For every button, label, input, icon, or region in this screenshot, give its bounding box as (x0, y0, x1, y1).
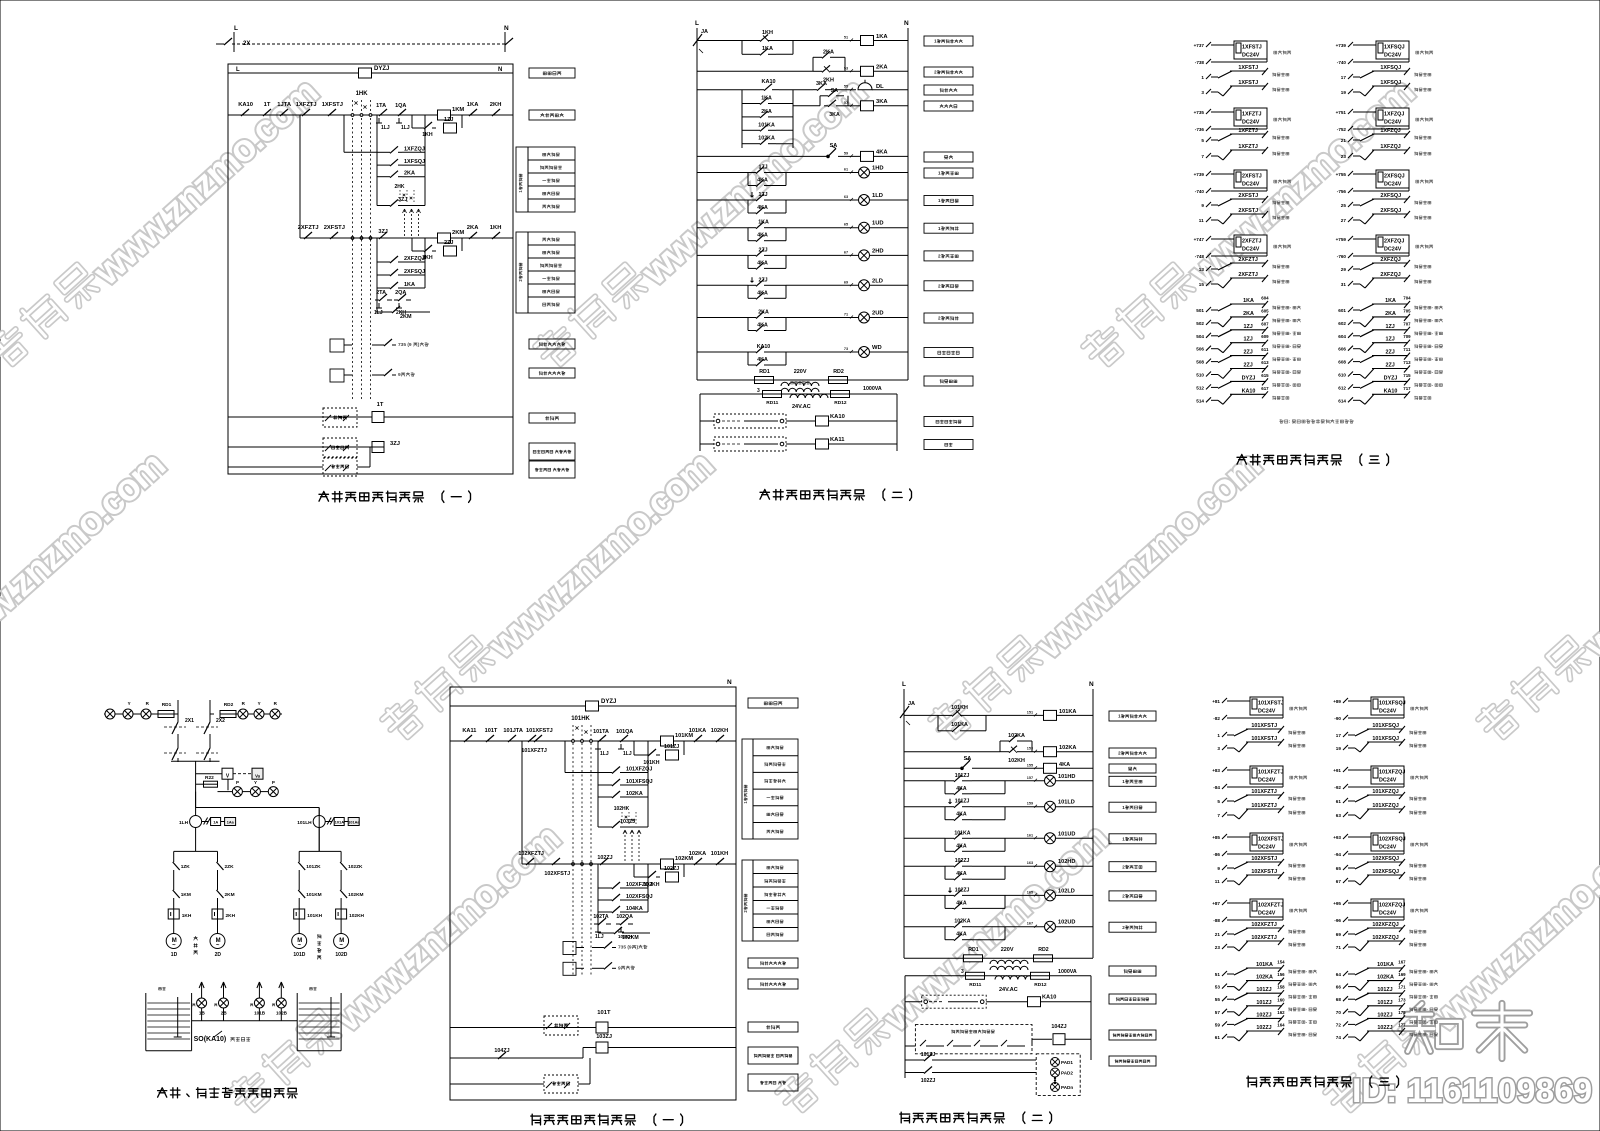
label box 102UD (1109, 922, 1156, 932)
sheet7 L contact 102XFZTJ a (1215, 922, 1305, 937)
relay coil 4KA (838, 149, 908, 161)
svg-text:1B: 1B (199, 1011, 206, 1016)
svg-text:101A: 101A (335, 820, 345, 825)
svg-text:R: R (242, 701, 246, 706)
wire rung 103ZJ s5 (450, 1048, 736, 1059)
svg-text:3: 3 (961, 969, 964, 975)
svg-text:2ZJ: 2ZJ (759, 277, 768, 283)
label box 104ZJ (1109, 1030, 1156, 1040)
svg-text:610: 610 (1338, 373, 1346, 378)
lamp 101LD (1005, 800, 1093, 813)
svg-text:1KH: 1KH (762, 30, 773, 36)
svg-text:67: 67 (844, 250, 848, 254)
sheet7 L contact 102ZJ grp (1215, 1023, 1317, 1042)
svg-text:101D: 101D (293, 952, 305, 958)
lamp phase r 243 (238, 709, 248, 719)
contact 102KA s5 (598, 741, 648, 798)
title sheet1 (319, 491, 471, 502)
wire lamp row 2UD (697, 317, 748, 319)
sheet7 L contact 102XFSTJ b (1215, 869, 1305, 885)
label box remote s5 (748, 1022, 798, 1032)
svg-text:4KA: 4KA (956, 786, 967, 792)
svg-text:1T: 1T (377, 402, 384, 408)
contact 102KM aux (598, 927, 650, 941)
selector switch 101HK (571, 716, 592, 976)
contact 2KA branch (742, 109, 793, 118)
contact 101KH b s5 (711, 851, 730, 865)
svg-text:24V.AC: 24V.AC (792, 404, 811, 410)
sheet3 L contact DYZJ grp (1196, 373, 1300, 391)
label box 2F (924, 152, 973, 162)
wire rung1 left (228, 114, 376, 116)
svg-text:715: 715 (1403, 373, 1411, 378)
svg-text:101KH: 101KH (951, 705, 968, 711)
wire rung A s6 (904, 715, 986, 730)
contact 103ZJ s5 (598, 797, 648, 828)
float switch s6 (905, 995, 986, 1008)
svg-text:709: 709 (1403, 334, 1411, 339)
label box 2C (924, 67, 973, 77)
svg-text:DC24V: DC24V (1242, 247, 1260, 253)
contact 4KA par 102HD (945, 866, 1005, 880)
svg-text:102XFSTJ: 102XFSTJ (544, 871, 570, 877)
wire rung2 s5 (522, 863, 736, 865)
contact 102KH b s5 (643, 871, 660, 888)
sheet3 R contact KA10 grp (1338, 386, 1431, 405)
sheet3 R relay 2XFZQJ DC24V (1336, 235, 1433, 259)
sheet7 L contact 101XFSTJ b (1217, 736, 1305, 752)
svg-text:-752: -752 (1337, 127, 1347, 132)
svg-text:2XFSTJ: 2XFSTJ (1238, 193, 1258, 199)
wire rung DYZJ (228, 67, 513, 73)
contact 101JTA s5 (503, 728, 525, 742)
contact 2XFSQJ b (377, 238, 425, 276)
svg-text:102ZJ: 102ZJ (597, 855, 612, 861)
svg-text:-: - (1290, 331, 1292, 336)
svg-text:3KA: 3KA (876, 99, 888, 105)
title sheet5 (531, 1114, 683, 1125)
wire branch 102ZJ (634, 864, 684, 877)
relay coil 101ZJ (664, 744, 679, 760)
transformer T primary (781, 381, 819, 392)
svg-text:102XFSQJ: 102XFSQJ (626, 894, 653, 900)
svg-text:608: 608 (1338, 360, 1346, 365)
svg-text:DYZJ: DYZJ (1384, 375, 1398, 381)
svg-text:617: 617 (1261, 386, 1269, 391)
svg-text:DC24V: DC24V (1379, 709, 1397, 715)
svg-text:+735: +735 (1194, 110, 1205, 115)
wire rung remote s5 (450, 1027, 736, 1029)
label box PAD (1109, 1056, 1156, 1066)
svg-text:1: 1 (938, 171, 941, 176)
sheet7 R contact 102ZJ grp (1336, 1010, 1438, 1028)
contactor 102KM (340, 876, 363, 904)
svg-text:165: 165 (1027, 890, 1033, 894)
sheet3 R contact 1XFSQJ a (1341, 65, 1431, 80)
fuse RD2 s6 (1034, 947, 1094, 962)
svg-text:3KA: 3KA (829, 112, 840, 118)
svg-text:167: 167 (1027, 922, 1033, 926)
test rung 375 (330, 369, 415, 382)
wire rung A (697, 40, 742, 42)
contact 4KA parallel 1LD (748, 200, 786, 214)
motor 101D (292, 919, 307, 958)
svg-text:167: 167 (1398, 960, 1406, 965)
svg-text:1XFZTJ: 1XFZTJ (1242, 112, 1261, 118)
ammeter 101A (334, 818, 344, 826)
svg-text:101B: 101B (254, 1011, 266, 1016)
svg-text:2KA: 2KA (1385, 311, 1396, 317)
svg-text:-: - (1290, 370, 1292, 375)
watermark znzmo 3 (1081, 67, 1422, 381)
svg-text:102KA: 102KA (1008, 733, 1025, 739)
svg-text:4KA: 4KA (757, 205, 768, 211)
svg-text:71: 71 (844, 313, 848, 317)
lamp P sheet4 (268, 780, 278, 797)
svg-text:www.znzmo.com: www.znzmo.com (1423, 818, 1600, 1041)
svg-text:L: L (234, 25, 238, 32)
svg-text:): ) (637, 945, 639, 951)
svg-text:101KH: 101KH (307, 913, 322, 919)
contact 102KA s5 (689, 851, 708, 865)
svg-text:2ZJ: 2ZJ (1386, 363, 1395, 369)
relay coil 103ZJ (596, 1034, 612, 1053)
selector 2HK mini (395, 184, 415, 202)
svg-text:-: - (1427, 969, 1429, 974)
sheet7 R contact 101ZJ grp (1336, 997, 1438, 1016)
svg-text:+751: +751 (1336, 110, 1347, 115)
svg-text:102KH: 102KH (711, 728, 728, 734)
svg-text:1ZJ: 1ZJ (444, 117, 453, 123)
breaker link dashes (164, 727, 218, 753)
wire spreader left (174, 850, 218, 852)
sheet7 L contact 101XFZTJ b (1217, 803, 1305, 819)
label spray pump vertical (194, 937, 198, 955)
svg-text:102XFZQJ: 102XFZQJ (1379, 903, 1405, 909)
svg-text:2: 2 (743, 910, 748, 913)
contact 4KA parallel 2UD (748, 318, 786, 332)
svg-text:101XFSTJ: 101XFSTJ (1251, 723, 1277, 729)
wire rung C (697, 70, 813, 72)
wire drop x377 b (376, 238, 378, 312)
svg-text:57: 57 (844, 101, 848, 105)
interlock arrows s5 (623, 830, 641, 861)
svg-text:17: 17 (1336, 733, 1342, 738)
svg-text:101ZK: 101ZK (306, 864, 321, 870)
svg-text:1: 1 (1217, 733, 1220, 738)
svg-text:-90: -90 (1334, 716, 1341, 721)
contact 4KA par 101UD (945, 838, 1005, 852)
svg-text:51: 51 (1215, 972, 1221, 977)
label box KA11 (924, 440, 973, 450)
sheet3 R contact 1XFZQJ a (1341, 128, 1431, 143)
svg-text:1: 1 (1122, 837, 1125, 842)
sheet7 R relay 101XFZQJ DC24V (1333, 766, 1428, 790)
label box 2E (924, 101, 973, 111)
label box 1LD (924, 196, 973, 206)
wire rung2 (300, 237, 513, 239)
sheet3 R contact 2XFSQJ a (1341, 193, 1431, 208)
svg-text:59: 59 (1215, 1022, 1221, 1027)
contact 101XFZTJ s5 (521, 735, 546, 754)
svg-text:RD11: RD11 (766, 400, 778, 406)
motor 102D (334, 919, 349, 958)
svg-text:162: 162 (1277, 1010, 1285, 1015)
svg-text:163: 163 (1027, 861, 1033, 865)
sheet3 R relay 1XFZQJ DC24V (1336, 108, 1433, 132)
contact KA10 (748, 344, 786, 353)
label box 101HD (1109, 776, 1156, 786)
svg-text:Y: Y (128, 701, 131, 706)
ammeter 1Aa (221, 818, 236, 826)
svg-text:506: 506 (1196, 347, 1204, 352)
svg-text:2KM: 2KM (452, 230, 464, 236)
wire lamp row 2HD (697, 254, 748, 256)
svg-text:1HD: 1HD (872, 166, 884, 172)
svg-text:-756: -756 (1337, 189, 1347, 194)
svg-text:2KA: 2KA (761, 109, 772, 115)
svg-text:101XFSTJ: 101XFSTJ (526, 728, 553, 734)
svg-text:502: 502 (1196, 321, 1204, 326)
svg-text:101ZJ: 101ZJ (955, 773, 970, 779)
label box 2UD (924, 313, 973, 323)
svg-text:102QA: 102QA (616, 914, 633, 920)
wire right rail sheet2 (907, 28, 909, 380)
svg-text:4KA: 4KA (956, 843, 967, 849)
svg-text:101JTA: 101JTA (503, 728, 523, 734)
svg-text:~: ~ (172, 943, 176, 949)
svg-text:9: 9 (1201, 203, 1204, 208)
svg-text:DC24V: DC24V (1384, 182, 1402, 188)
wire rung1 right s5 (598, 740, 736, 742)
wire spreader right (299, 815, 341, 851)
contact 4KA parallel 1UD (748, 228, 786, 242)
svg-text:DYZJ: DYZJ (374, 66, 389, 72)
svg-text:155: 155 (1027, 763, 1033, 767)
voltmeter V (196, 768, 233, 790)
svg-text:604: 604 (1338, 334, 1346, 339)
contact 4KA par 101LD (945, 807, 1005, 821)
isolator 2ZK (217, 851, 235, 876)
svg-text:102HK: 102HK (614, 806, 630, 812)
svg-text:64: 64 (1336, 972, 1342, 977)
relay coil 3KA (848, 99, 908, 111)
sheet3 R contact 2XFZQJ b (1341, 272, 1431, 288)
svg-text:2: 2 (938, 284, 941, 289)
svg-text:157: 157 (1027, 776, 1033, 780)
svg-text:102XFSQJ: 102XFSQJ (1379, 837, 1406, 843)
svg-text:3ZJ: 3ZJ (398, 197, 407, 203)
svg-text:101LH: 101LH (297, 820, 312, 826)
node L N sheet2 (695, 20, 909, 27)
lamp phase 110 (105, 709, 115, 719)
svg-text:101XFZTJ: 101XFZTJ (1251, 803, 1276, 809)
svg-text:101ZJ: 101ZJ (1377, 987, 1392, 993)
svg-text:-: - (1306, 1032, 1308, 1037)
svg-text:102B: 102B (276, 1011, 288, 1016)
svg-text:1A: 1A (213, 820, 218, 825)
wire number ticks s2 (844, 36, 853, 354)
dots (1054, 1077, 1055, 1083)
labels 2X1 2X2 (185, 718, 225, 724)
sheet3 L contact 2XFZTJ b (1199, 272, 1289, 288)
contact 1KA parallel (742, 46, 793, 55)
sheet3 L contact 2KA grp (1196, 308, 1300, 327)
sheet7 R contact 102XFZQJ b (1336, 935, 1426, 951)
svg-text:2XFSQJ: 2XFSQJ (1380, 208, 1401, 214)
svg-text:101T: 101T (485, 728, 498, 734)
svg-text:+755: +755 (1336, 172, 1347, 177)
svg-text:-: - (1306, 994, 1308, 999)
svg-text:101XFZTJ: 101XFZTJ (1251, 789, 1276, 795)
lamp 101UD (1005, 831, 1093, 844)
ct hook 2LJ a (374, 303, 383, 316)
ct hook 101LJ a (595, 744, 609, 757)
label box alarm1 (529, 339, 575, 349)
svg-text:1ZJ: 1ZJ (1244, 337, 1253, 343)
svg-text:102KA: 102KA (626, 791, 643, 797)
wire bracket s5 (565, 741, 598, 773)
contact 4KA par 102LD (945, 895, 1005, 909)
wire drop rung2 s5 (521, 741, 523, 864)
water tank right (297, 987, 341, 1050)
svg-text:102ZJ: 102ZJ (1377, 1025, 1392, 1031)
wire lamp feed right (236, 701, 282, 714)
ammeter 101Aa (344, 818, 360, 826)
svg-text:101XFZQJ: 101XFZQJ (1372, 803, 1398, 809)
svg-text:RD2: RD2 (224, 702, 234, 708)
svg-text:3KA: 3KA (816, 81, 827, 87)
remote box (323, 408, 357, 427)
sheet7 R contact 101XFZQJ a (1336, 789, 1426, 804)
svg-text:4KA: 4KA (1059, 762, 1070, 768)
label RD11 s6 (969, 982, 981, 988)
contact 101QA (616, 729, 633, 742)
svg-text:1ZJ: 1ZJ (1244, 324, 1253, 330)
svg-text:-: - (1432, 382, 1434, 387)
svg-text:1LJ: 1LJ (381, 125, 390, 131)
ct hook 1LJ a (376, 118, 390, 131)
svg-text:717: 717 (1403, 386, 1411, 391)
svg-text:1XFSQJ: 1XFSQJ (1380, 65, 1401, 71)
svg-text:-740: -740 (1337, 60, 1347, 65)
svg-text:102XFZTJ: 102XFZTJ (518, 851, 543, 857)
lamp 2HD (786, 248, 908, 261)
svg-text:101XFZTJ: 101XFZTJ (521, 748, 546, 754)
svg-text:+85: +85 (1212, 835, 1220, 840)
svg-text:1KH: 1KH (422, 132, 433, 138)
label box power (529, 68, 575, 78)
svg-text:KA10: KA10 (238, 102, 253, 108)
contact 2KA (377, 115, 425, 178)
svg-text:102KH: 102KH (349, 913, 364, 919)
panel contacts s6 (905, 1040, 1025, 1046)
svg-text:101TA: 101TA (593, 729, 609, 735)
sheet7 R relay 102XFSQJ DC24V (1333, 833, 1428, 857)
svg-text:67: 67 (1336, 879, 1342, 884)
wire drop s5 (597, 741, 599, 827)
relay coil DYZJ (359, 66, 390, 78)
title sheet6 (900, 1112, 1052, 1123)
title sheet2 (760, 489, 912, 500)
svg-text:2: 2 (1122, 864, 1125, 869)
label SO KA10 (194, 1031, 251, 1043)
relay coil 4KA s6 (1044, 762, 1094, 773)
svg-text:1QA: 1QA (395, 103, 406, 109)
sheet7 L contact 102XFZTJ b (1215, 935, 1305, 951)
sheet7 R contact 102XFSQJ a (1336, 856, 1426, 871)
svg-text:1KA: 1KA (1385, 298, 1396, 304)
svg-text:KA10: KA10 (830, 414, 845, 420)
svg-text:2TA: 2TA (376, 290, 386, 296)
contact 3KA (813, 81, 856, 91)
svg-text:11: 11 (1215, 879, 1220, 884)
svg-text:1UD: 1UD (872, 221, 884, 227)
svg-text:614: 614 (1338, 398, 1346, 403)
sheet7 R contact 102ZJ grp (1336, 1023, 1438, 1042)
sheet7 R contact 102XFSQJ b (1336, 869, 1426, 885)
fuse RD11 (757, 388, 830, 398)
contact 1KA (748, 220, 786, 229)
svg-text:DC24V: DC24V (1242, 120, 1260, 126)
svg-text:173: 173 (1398, 997, 1406, 1002)
svg-text:V: V (226, 774, 230, 780)
sheet3 L relay 1XFZTJ DC24V (1194, 108, 1291, 132)
contact 1KH NC (742, 30, 793, 42)
contact 2KA parallel (813, 49, 845, 71)
svg-text:102ZJ: 102ZJ (1377, 1012, 1392, 1018)
disconnect JA s6 (900, 701, 915, 725)
svg-text:55: 55 (1215, 997, 1221, 1002)
watermark znzmo 6 (928, 440, 1269, 754)
sheet3 R contact DYZJ grp (1338, 373, 1442, 391)
svg-text:+739: +739 (1194, 172, 1205, 177)
ps contacts s5 (546, 1082, 570, 1088)
svg-text:69: 69 (844, 280, 848, 284)
lamp 2UD (786, 311, 908, 324)
label box power s5 (748, 698, 798, 708)
fuse RD1 s6 (904, 947, 983, 962)
contact 102QA (616, 914, 633, 925)
wire 220V (773, 369, 837, 380)
remote box s5 (544, 1016, 578, 1035)
lamp P sheet4 (232, 780, 250, 797)
fuse RD11 s6 (961, 969, 1030, 979)
svg-text:53: 53 (1215, 985, 1221, 990)
svg-text:2: 2 (1122, 894, 1125, 899)
watermark znzmo 1 (0, 67, 326, 381)
sheet3 L contact 2XFZTJ a (1199, 257, 1289, 272)
svg-text:3: 3 (1201, 90, 1204, 95)
switch SA (827, 143, 838, 158)
svg-text:-92: -92 (1334, 785, 1341, 790)
svg-text:171: 171 (1398, 985, 1406, 990)
svg-text:101ZJ: 101ZJ (664, 744, 679, 750)
sheet7 R contact 102KA grp (1336, 972, 1438, 991)
svg-text:510: 510 (1196, 373, 1204, 378)
lamp PAD2 (1051, 1068, 1074, 1077)
svg-text:2XFZQJ: 2XFZQJ (1380, 272, 1400, 278)
contact 102TA (593, 914, 611, 925)
lamp phase r 259 (254, 709, 264, 719)
svg-text:31: 31 (1341, 282, 1347, 287)
test rung s5 947 (563, 942, 647, 955)
svg-text:102KH: 102KH (1008, 758, 1025, 764)
svg-text:2: 2 (934, 70, 937, 75)
contact 101XFSTJ s5 (526, 728, 553, 742)
ct hook 102LJ b (618, 927, 633, 939)
contact 2KH b (420, 245, 436, 261)
